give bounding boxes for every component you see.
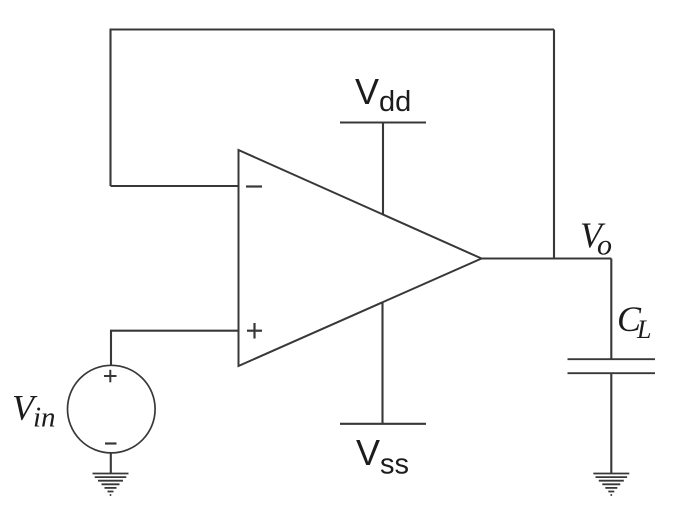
wire feedback left vertical	[109, 30, 111, 187]
wire output	[482, 257, 612, 259]
label Vin (source)	[12, 387, 56, 433]
svg-text:V: V	[356, 432, 380, 473]
wire capacitor to ground	[610, 373, 612, 473]
op-amp U1 non-inverting pin marker (+)	[247, 323, 262, 339]
wire inverting input	[111, 185, 239, 187]
voltage source Vin minus marker	[105, 442, 117, 444]
wire feedback right vertical	[553, 30, 555, 259]
voltage source Vin circle	[68, 365, 156, 453]
svg-text:V: V	[355, 71, 379, 112]
op-amp U1 inverting pin marker (-)	[246, 185, 262, 187]
svg-text:dd: dd	[379, 86, 411, 118]
capacitor C_L plates	[568, 359, 656, 373]
power rail Vdd bar	[340, 121, 426, 123]
svg-text:L: L	[636, 315, 651, 344]
label Vo (node)	[580, 215, 612, 262]
svg-text:ss: ss	[380, 449, 409, 481]
op-amp U1	[239, 150, 482, 366]
ground (right, under C_L)	[593, 474, 629, 496]
wire non-inverting input	[110, 330, 239, 332]
wire Vin bottom	[110, 453, 112, 474]
voltage source Vin plus marker	[104, 370, 117, 383]
wire feedback top horizontal	[110, 28, 555, 30]
wire Vdd to op-amp	[382, 123, 384, 215]
svg-text:o: o	[597, 229, 612, 262]
label CL (capacitor value)	[617, 299, 651, 344]
label Vdd	[355, 71, 411, 118]
power rail Vss bar	[340, 423, 426, 425]
svg-text:in: in	[33, 402, 56, 434]
wire Vin top	[110, 331, 112, 366]
wire output to capacitor	[610, 259, 612, 360]
wire Vss to op-amp	[381, 303, 383, 424]
label Vss	[356, 432, 409, 481]
ground (left, under Vin)	[93, 474, 129, 496]
